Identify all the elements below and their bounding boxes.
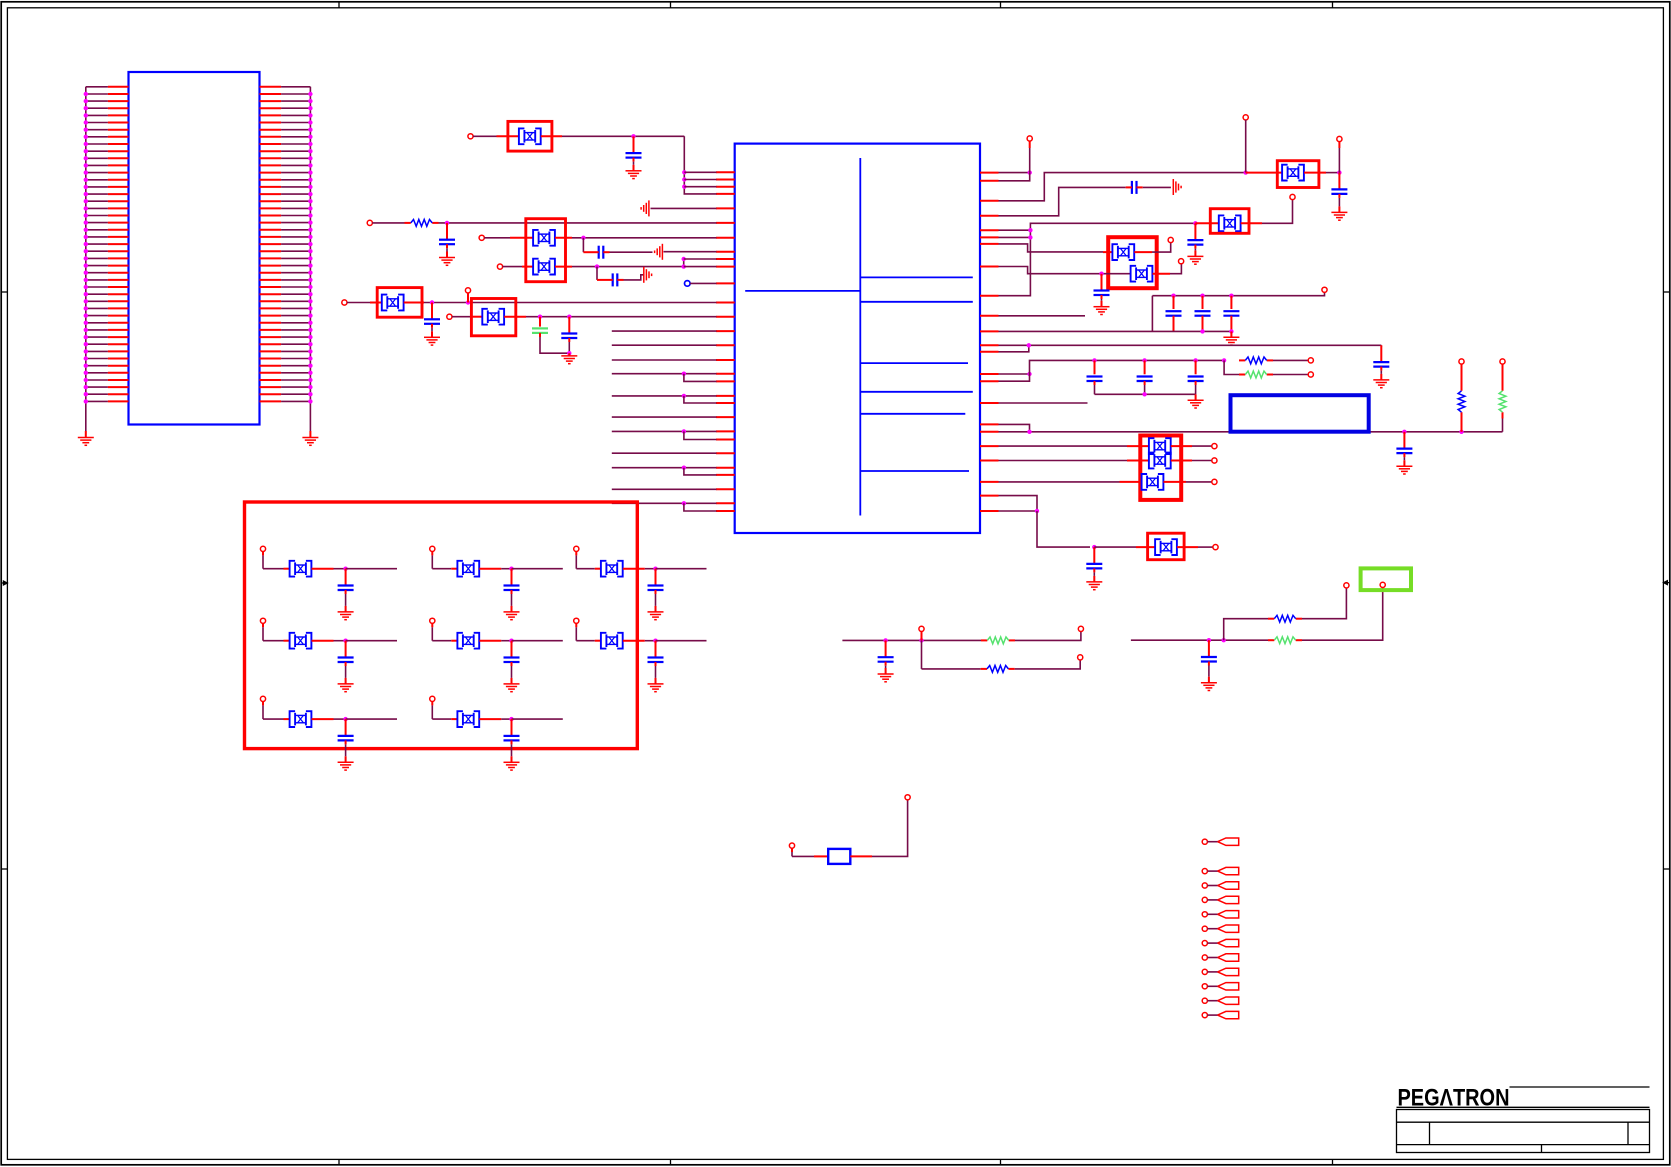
junction N24 [1092,358,1096,362]
junction N27 [1222,358,1226,362]
resistor R5 (green vertical) [1502,385,1504,391]
terminal T23 [919,626,924,631]
resistor R8 (green) [1268,639,1274,641]
highlight box around FB10 FB11 FB12 [1140,436,1181,500]
wire U1 pin r13 to bus [999,345,1029,352]
wire GP1 to U1 pin [651,207,717,209]
wire junction to stub end [512,568,563,570]
resistor R7 [981,668,987,670]
wire TB8 to FB21 [431,701,433,705]
junction A4 [682,257,686,261]
wire cap rail top [1152,292,1324,295]
junction A9 [682,466,686,470]
wire T3 to FB2 [484,237,510,239]
wire FB17 to junction [312,640,334,642]
ferrite bead FB7 [1219,215,1241,231]
junction N30 [1402,430,1406,434]
wire FB3 to node N4 [555,266,572,268]
wire T9 down to N11 [1245,120,1247,173]
wire T28 to RB1 [791,848,793,852]
capacitor C2 [439,223,455,258]
off-page connector P8 [1202,955,1207,960]
off-page connector P7 [1202,941,1207,946]
wire R1 to node N2 [439,222,717,224]
border zone ticks left [1,291,7,293]
ground G10 [1230,331,1232,337]
wire N31 up to R4 [1461,419,1463,432]
wire R9 to T26 [1302,588,1346,619]
wire net M2 [1131,639,1268,641]
junction NB5 [509,639,513,643]
capacitor C7 [561,317,577,338]
terminal TB6 [574,618,579,623]
terminal TB1 [260,546,265,551]
capacitor C3 (series) [599,246,604,259]
highlight box around FB1 [508,121,552,151]
junction N25 [1142,358,1146,362]
capacitor C18 [1195,360,1197,374]
wire B1 to U1 pin [690,282,716,284]
terminal T25 [1078,655,1083,660]
capacitor C10 [1187,223,1203,256]
border zone ticks right [1663,291,1669,293]
ferrite bead FB17 [290,633,312,649]
connector J1 right pins [260,87,313,404]
junction N36 [1207,638,1211,642]
junction NB3 [653,567,657,571]
resistor R1 [405,222,411,224]
terminal TB3 [574,546,579,551]
wire T2 to R1 [372,222,404,224]
junction N9 [567,351,571,355]
highlight box around FB2 FB3 [526,219,566,282]
capacitor C19 [1396,432,1412,466]
junction N31 [1459,430,1463,434]
capacitor C4 (series) [613,273,618,286]
terminal TB4 [260,618,265,623]
wire R3 to T16 [1273,374,1308,376]
ferrite bead FB3 [533,259,555,275]
capacitor CB3 [648,569,664,612]
wire row y417 [612,416,717,418]
ferrite bead FB4 [382,295,404,311]
inverted-pin bubble B1 [685,281,691,287]
wire N37 branch to R9 [1224,619,1268,641]
wire A4 to pin [684,258,717,260]
reference block BB1 (blue box) [1231,395,1369,432]
capacitor CB2 [504,569,520,612]
off-page connector P4 [1202,897,1207,902]
ferrite bead FB9 [1131,266,1153,282]
wire U1 pin r8 to node N16 [999,267,1131,274]
terminal T21 [1212,479,1217,484]
IC U1 right pins [980,173,999,511]
ferrite bead FB5 [482,309,504,325]
wire T6 to N6 [467,293,469,303]
off-page connector P2 [1202,869,1207,874]
terminal TB7 [260,696,265,701]
wire R4 to T17 [1461,364,1463,385]
wire FB15 to junction [479,568,501,570]
capacitor C14 [1230,296,1232,309]
wire U1 pin r20 to FB11 [999,460,1128,462]
wire R7 to T25 [1015,660,1080,669]
wire junction to stub end [512,718,563,720]
junction A6 [682,372,686,376]
junction N32 [1035,509,1039,513]
terminal T3 [479,235,484,240]
connector J1 body [129,72,260,425]
wire U1 pin r1 to node [999,172,1030,174]
capacitor C6 (green) [539,317,541,327]
wire C9 to ground GP4 [1143,186,1171,188]
ground GP2 (rotated) [655,244,663,260]
wire A2 to pin [684,179,716,181]
junction A8 [682,429,686,433]
terminal T20 [1212,458,1217,463]
wire T7 to FB5 [452,316,471,318]
wire R8 to green box [1302,587,1383,640]
wire U1 pin r16 stub [999,402,1088,404]
wire junction to stub end [656,640,707,642]
terminal TB8 [430,696,435,701]
capacitor C9 (series) [1132,181,1137,194]
junction N33 [1092,545,1096,549]
wire R6 to T24 [1015,631,1081,640]
wire FB12 to T21 [1164,481,1187,483]
capacitor C13 [1202,296,1204,309]
ferrite bead FB10 [1149,438,1171,454]
IC U1 internal divider left horizontal [745,290,860,292]
wire N27 branch to R3 [1224,360,1239,374]
wire N35 branch down [921,640,923,669]
terminal T4 [497,264,502,269]
resistor block RB1 [828,849,850,864]
wire GP2 row to U1 pin [664,251,717,253]
wire N4 down to C4 [596,267,598,280]
junction N18 [1200,294,1204,298]
ferrite bead FB21 [457,711,479,727]
wire U1 pin r12 long net y345 [999,344,1382,346]
wire C4 to ground GP3 [624,275,644,280]
wire FB5 to node N7 [504,316,526,318]
wire FB2 to node N3 [555,237,572,239]
junction NB8 [509,717,513,721]
wire T5 to FB4 [347,302,370,304]
connector J1 left pins [84,87,129,404]
ground GP4 (rotated) [1173,179,1181,195]
ferrite bead FB12 [1142,474,1164,490]
junction N19 [1229,294,1233,298]
junction N21 [1229,329,1233,333]
terminal T17 [1459,359,1464,364]
off-page connector P12 [1202,1013,1207,1018]
wire U1 pin r19 to FB10 [999,445,1128,447]
wire FB11 to T20 [1171,460,1192,462]
off-page connector P6 [1202,926,1207,931]
wire A5 to pin [684,266,717,268]
terminal T24 [1078,626,1083,631]
junction N23 [1027,372,1031,376]
junction N29 [1027,430,1031,434]
ferrite bead FB2 [533,230,555,246]
highlight box around FB13 [1148,533,1185,560]
border zone ticks top [338,2,340,8]
wire FB4 to node N5 [404,302,424,304]
wire FB14 to junction [312,568,334,570]
wire FB16 to junction [623,568,645,570]
connector J1 left pin bus wire [85,87,87,424]
ground GP1 (rotated) [641,200,649,216]
wire bus to long net y223 [999,223,1196,295]
wire rail stem [1151,296,1153,332]
capacitor C22 [1201,640,1217,683]
wire R5 to T18 [1502,364,1504,385]
junction A10 [682,501,686,505]
wire U1 pin r21 to FB12 [999,481,1120,483]
junction N20 [1200,329,1204,333]
reference block GB2 (green box) [1361,568,1411,590]
wire U1 pin r17 to bus [999,424,1030,431]
wire T10 down to N12 [1338,142,1340,149]
ferrite bead FB15 [457,561,479,577]
wire T8 down to N10 [1029,141,1031,148]
capacitor CB4 [338,641,354,684]
ground at J1 right bus [302,438,318,446]
junction N14 [1028,235,1032,239]
wire rail y360 [1030,360,1225,374]
terminal T6 [465,288,470,293]
terminal T29 [905,795,910,800]
wire U1 pin r4 to C9 [999,187,1126,215]
wire FB9 to T13 [1153,273,1171,275]
capacitor C8 [1331,173,1347,213]
wire RB1 to T29 [850,855,872,857]
junction NB4 [343,639,347,643]
wire junction to stub end [346,718,397,720]
ferrite bead FB18 [457,633,479,649]
wire T1 to FB1 [473,135,497,137]
resistor R3 (green) [1239,374,1245,376]
terminal T13 [1179,259,1184,264]
terminal T7 [447,314,452,319]
wire FB18 to junction [479,640,501,642]
wire U1 pin r10 stub [999,315,1086,317]
ferrite bead FB11 [1149,453,1171,469]
wire U1 pin r11 cap rail bottom [999,330,1232,332]
wire U1 pin r2 up to N10 [999,173,1030,181]
junction NB1 [343,567,347,571]
junction N16 [1099,272,1103,276]
IC U1 body [735,144,980,533]
terminal T9 [1243,115,1248,120]
wire N11 to FB6 [1246,172,1282,174]
junction A2 [682,177,686,181]
ground at J1 left bus [78,438,94,446]
wire row y431 with branch [612,430,717,432]
wire net M1 [842,639,981,641]
resistor R9 [1268,618,1274,620]
ground G11 [1195,394,1197,400]
ferrite bead FB1 [519,128,541,144]
terminal T5 [342,300,347,305]
wire FB19 to junction [623,640,645,642]
capacitor CB7 [338,719,354,762]
wire N3 down to C3 [582,238,584,252]
wire FB1 to node [541,135,562,137]
junction N5 [430,300,434,304]
off-page connector P9 [1202,969,1207,974]
terminal T12 [1168,237,1173,242]
terminal T18 [1500,359,1505,364]
junction N28 [1142,392,1146,396]
wire junction to stub end [512,640,563,642]
wire FB10 to T19 [1171,445,1192,447]
wire bus down to U1 pins group A [684,136,716,194]
wire U1 pin r3 to long net [999,173,1246,201]
wire TB4 to FB17 [262,623,264,627]
wire TB6 to FB19 [575,623,577,627]
junction A1 [682,170,686,174]
wire U1 pin r14 to rail [999,373,1030,375]
off-page connector P3 [1202,883,1207,888]
border zone ticks bottom [338,1159,340,1164]
highlight box around FB6 [1277,161,1319,188]
wire bus down to row y547 [1037,511,1090,547]
junction N37 [1222,638,1226,642]
title block top line [1510,1086,1650,1088]
wire junction to stub end [656,568,707,570]
capacitor CB6 [648,641,664,684]
junction N4 [595,264,599,268]
wire N15 to FB7 [1195,222,1218,224]
wire row y503 with branch [612,502,717,504]
resistor R2 [1239,359,1245,361]
capacitor CB8 [504,719,520,762]
wire N33 to FB13 [1094,546,1136,548]
wire C3 to ground GP2 [610,251,653,253]
junction NB2 [509,567,513,571]
junction N15 [1193,221,1197,225]
resistor R6 (green) [981,639,987,641]
capacitor C15 at net end [1380,345,1382,347]
ferrite bead FB19 [601,633,623,649]
IC U1 internal divider vertical [859,158,861,516]
junction NB7 [343,717,347,721]
capacitor C1 [626,136,642,171]
wire A1 to pin [684,171,716,173]
terminal T8 [1027,136,1032,141]
wire junction to stub end [346,568,397,570]
junction A3 [682,185,686,189]
junction N35 [919,638,923,642]
terminal T28 [789,843,794,848]
junction N7 [538,315,542,319]
highlight box around FB4 [377,288,422,318]
off-page connector P5 [1202,912,1207,917]
border mid arrow left [1,581,7,585]
wire C6 to node N9 [539,333,541,337]
wire U1 pin r23 to bus [999,510,1038,512]
wire U1 pin r22 to bus [999,496,1038,511]
terminal TB2 [430,546,435,551]
junction NB6 [653,639,657,643]
capacitor C5 [424,303,440,338]
junction N13 [1028,228,1032,232]
wire FB8 to T12 [1134,251,1152,253]
wire row y453 [612,452,717,454]
junction node N1 [631,134,635,138]
wire T23 to N35 [921,631,923,640]
wire U1 pin r7 to FB8 [999,244,1104,252]
connector J1 right pin bus wire [309,87,311,424]
highlight box around FB7 [1210,209,1249,234]
terminal T11 [1290,194,1295,199]
wire FB20 to junction [312,718,334,720]
terminal T27 on GB2 [1380,582,1385,587]
terminal T22 [1213,545,1218,550]
ferrite bead FB20 [290,711,312,727]
wire U1 pin r15 branch [999,374,1030,381]
wire TB2 to FB15 [431,551,433,555]
wire TB5 to FB18 [431,623,433,627]
ferrite bead FB8 [1112,244,1134,260]
wire row y345 [612,344,717,346]
terminal T10 [1337,136,1342,141]
wire A3 to pin [684,186,716,188]
wire U1 pin r6 to bus [999,236,1031,238]
ferrite bead FB13 [1155,539,1177,555]
off-page connector P10 [1202,984,1207,989]
IC U1 internal dividers right [860,277,973,471]
capacitor C16 [1094,360,1096,374]
title block table [1397,1107,1650,1152]
wire junction to stub end [346,640,397,642]
wire TB1 to FB14 [262,551,264,555]
wire bus pins 259/266 [683,259,685,267]
border mid arrow right [1663,581,1669,585]
resistor R4 (vertical) [1461,385,1463,391]
group highlight box GB1 [245,502,638,749]
junction N17 [1171,294,1175,298]
junction N11 [1244,170,1248,174]
wire rail corner up to R5 [1502,419,1504,432]
wire C7 to ground [568,338,570,342]
wire row y331 [612,330,717,332]
wire U1 pin r5 to bus [999,229,1031,231]
capacitor C17 [1144,360,1146,374]
terminal TB5 [430,618,435,623]
wire FB13 to T22 [1177,546,1198,548]
wire T4 to FB3 [503,266,523,268]
IC U1 left pins [716,172,735,511]
junction N12 [1337,170,1341,174]
capacitor CB5 [504,641,520,684]
capacitor C11 [1094,274,1110,307]
capacitor CB1 [338,569,354,612]
terminal T26 [1344,583,1349,588]
wire FB6 to node N12 [1304,172,1326,174]
highlight box around FB5 [471,299,515,336]
wire R2 to T15 [1273,359,1308,361]
wire TB3 to FB16 [575,551,577,555]
ferrite bead FB6 [1282,165,1304,181]
junction N8 [567,315,571,319]
ground GP3 (rotated) [644,267,652,283]
terminal T14 [1322,287,1327,292]
wire cap bottoms rail [1095,393,1196,395]
junction N3 [581,236,585,240]
